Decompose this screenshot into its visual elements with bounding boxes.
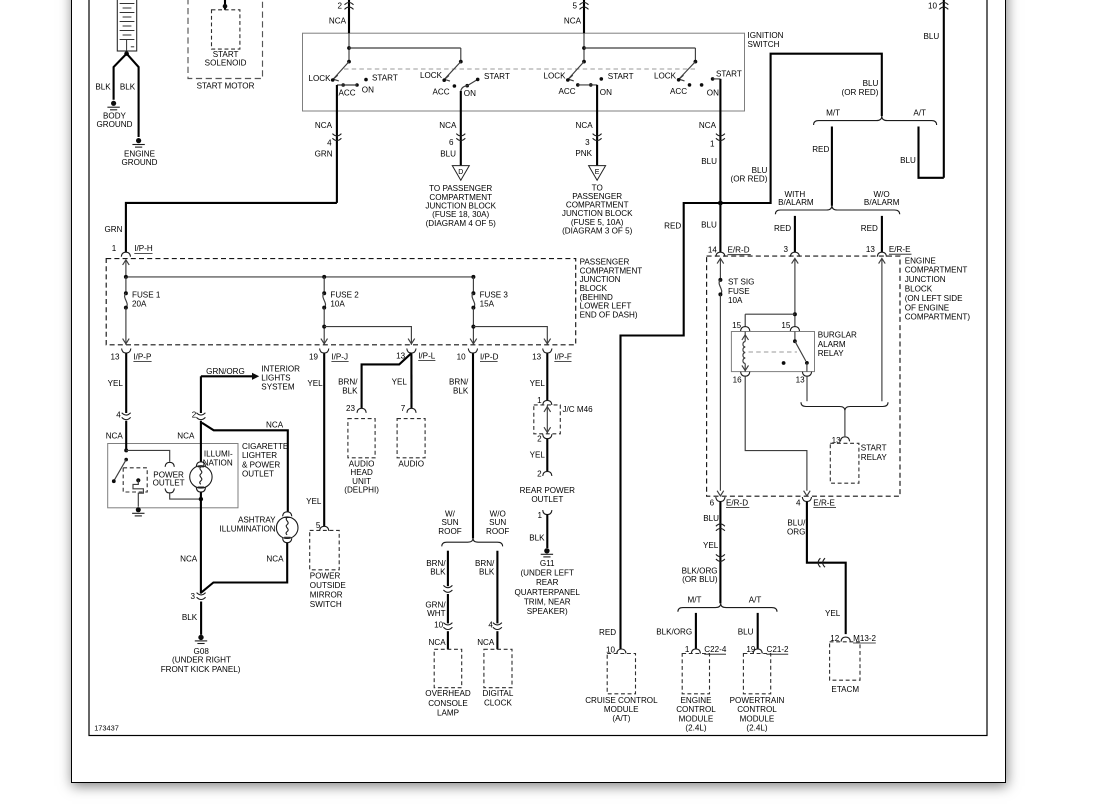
wire below illumination bulb [200, 492, 202, 593]
svg-text:YEL: YEL [108, 379, 124, 388]
svg-text:NCA: NCA [180, 554, 198, 563]
svg-text:ACC: ACC [670, 87, 687, 96]
svg-text:START: START [484, 72, 510, 81]
ignition output 4 wire (BLU) [719, 79, 721, 252]
svg-text:OF ENGINE: OF ENGINE [905, 303, 950, 312]
svg-text:ACC: ACC [432, 87, 449, 96]
svg-text:CONSOLE: CONSOLE [428, 699, 468, 708]
svg-text:BLK: BLK [453, 386, 469, 395]
svg-text:19: 19 [309, 352, 319, 361]
svg-text:G11: G11 [540, 559, 555, 568]
svg-text:CIGARETTE: CIGARETTE [242, 442, 289, 451]
svg-text:YEL: YEL [703, 541, 719, 550]
svg-text:(DIAGRAM 4 OF 5): (DIAGRAM 4 OF 5) [426, 219, 496, 228]
connector 1 [716, 134, 725, 141]
illumination feed / pin 2 [200, 376, 202, 413]
svg-text:JUNCTION: JUNCTION [905, 275, 946, 284]
svg-text:START: START [608, 72, 634, 81]
svg-text:POWER: POWER [310, 572, 341, 581]
svg-text:B/ALARM: B/ALARM [778, 198, 814, 207]
svg-text:ENGINE: ENGINE [905, 256, 937, 265]
svg-text:OUTSIDE: OUTSIDE [310, 581, 347, 590]
switch section 2 (ON-START feed) [349, 48, 510, 98]
brace sunroof [442, 538, 503, 546]
engine compartment junction block [707, 256, 900, 496]
svg-text:SWITCH: SWITCH [748, 40, 780, 49]
svg-text:J/C M46: J/C M46 [563, 405, 594, 414]
wire RED (w/o b/alarm) [881, 216, 883, 252]
svg-text:NCA: NCA [699, 121, 717, 130]
svg-text:13: 13 [532, 352, 542, 361]
svg-text:BLK: BLK [430, 568, 446, 577]
svg-text:RELAY: RELAY [861, 453, 888, 462]
svg-text:JUNCTION BLOCK: JUNCTION BLOCK [425, 201, 496, 210]
svg-text:(FUSE 18, 30A): (FUSE 18, 30A) [432, 210, 489, 219]
engine control module [682, 654, 709, 694]
svg-text:2: 2 [337, 2, 342, 11]
svg-text:C22-4: C22-4 [704, 645, 727, 654]
svg-text:3: 3 [585, 138, 590, 147]
svg-text:G08: G08 [194, 647, 210, 656]
svg-text:5: 5 [572, 2, 577, 11]
connector 10 [443, 623, 452, 630]
svg-text:REAR POWER: REAR POWER [520, 486, 575, 495]
connector 4 [332, 134, 341, 141]
svg-text:(2.4L): (2.4L) [685, 724, 706, 733]
svg-text:COMPARTMENT): COMPARTMENT) [905, 313, 971, 322]
power outlet switch [125, 421, 127, 451]
burglar alarm relay [731, 332, 814, 372]
wire YEL from I/P-L to audio [410, 353, 412, 408]
svg-text:(ON LEFT SIDE: (ON LEFT SIDE [905, 294, 963, 303]
svg-text:20A: 20A [132, 300, 147, 309]
svg-text:(DELPHI): (DELPHI) [344, 485, 379, 494]
svg-text:SWITCH: SWITCH [310, 600, 342, 609]
svg-text:13: 13 [110, 352, 120, 361]
svg-text:OUTLET: OUTLET [153, 479, 185, 488]
svg-text:BRN/: BRN/ [338, 378, 358, 387]
exit pin 4 E/R-E [802, 497, 811, 502]
wire BRN/BLK from I/P-D [472, 353, 474, 538]
svg-text:SUN: SUN [441, 518, 458, 527]
svg-text:ILLUMI-: ILLUMI- [204, 449, 233, 458]
svg-text:INTERIOR: INTERIOR [261, 365, 300, 374]
svg-text:(OR RED): (OR RED) [731, 175, 768, 184]
svg-text:1: 1 [112, 244, 117, 253]
svg-text:YEL: YEL [530, 451, 546, 460]
start motor box [188, 0, 263, 79]
svg-text:YEL: YEL [307, 379, 323, 388]
svg-text:PNK: PNK [575, 149, 592, 158]
svg-text:LOCK: LOCK [654, 71, 677, 80]
junction on solenoid wire [223, 4, 228, 9]
power outlet contact lead [126, 450, 170, 461]
svg-text:I/P-D: I/P-D [480, 352, 499, 361]
brace to start relay [801, 402, 888, 410]
svg-text:I/P-L: I/P-L [418, 351, 436, 360]
triangle reference D [452, 166, 469, 181]
wire BLU/YEL from pin 6 [719, 502, 721, 604]
svg-text:1: 1 [537, 511, 542, 520]
svg-text:RED: RED [599, 628, 616, 637]
svg-text:FUSE: FUSE [728, 287, 750, 296]
wire YEL to rear power outlet [546, 439, 548, 472]
ignition output 1 wire (GRN) [336, 85, 338, 203]
svg-text:3: 3 [190, 592, 195, 601]
svg-text:TRIM, NEAR: TRIM, NEAR [524, 598, 571, 607]
svg-text:LIGHTER: LIGHTER [242, 451, 277, 460]
wire ashtray to pin 3 [202, 543, 288, 592]
wire pin 3 to relay [794, 258, 796, 326]
junction node BLU [718, 201, 723, 206]
ST SIG FUSE 10A [719, 258, 721, 280]
svg-text:NCA: NCA [266, 421, 284, 430]
fuse 3 15A [470, 277, 550, 345]
pin 13 I/P-P [122, 349, 131, 354]
svg-text:1: 1 [537, 396, 542, 405]
pin 10 I/P-D [468, 349, 477, 354]
svg-text:BLU: BLU [900, 156, 916, 165]
svg-text:GRN: GRN [105, 225, 123, 234]
body ground [107, 101, 119, 110]
svg-text:(OR BLU): (OR BLU) [682, 575, 718, 584]
svg-text:BLU: BLU [738, 628, 754, 637]
svg-text:CONTROL: CONTROL [676, 705, 716, 714]
svg-text:ACC: ACC [558, 87, 575, 96]
svg-text:COMPARTMENT: COMPARTMENT [580, 266, 643, 275]
svg-text:4: 4 [488, 620, 493, 629]
svg-text:OVERHEAD: OVERHEAD [425, 689, 471, 698]
passenger compartment junction block [106, 259, 576, 345]
relay pin 13 [802, 372, 811, 377]
wire BLK/ORG to ECM [695, 613, 697, 649]
junction connector J/C M46 [534, 405, 561, 434]
svg-text:NCA: NCA [576, 121, 594, 130]
ground G08 [195, 635, 207, 644]
GRN/ORG wire to interior lights [201, 375, 253, 377]
svg-text:NCA: NCA [177, 431, 195, 440]
pin 2 wire into ignition switch [348, 0, 350, 33]
svg-text:4: 4 [796, 498, 801, 507]
wire BLU to PCM [757, 613, 759, 649]
mechanical linkage (dashed) [344, 68, 698, 70]
svg-text:A/T: A/T [749, 596, 762, 605]
svg-text:GROUND: GROUND [97, 120, 133, 129]
NCA branch to ashtray [202, 423, 288, 512]
connector pin 2 [345, 3, 354, 10]
svg-text:BRN/: BRN/ [426, 559, 446, 568]
svg-text:SPEAKER): SPEAKER) [527, 607, 568, 616]
ignition output 2 wire (BLU) [460, 91, 462, 165]
svg-text:LAMP: LAMP [437, 709, 459, 718]
svg-text:BLK: BLK [479, 568, 495, 577]
svg-text:MIRROR: MIRROR [310, 591, 343, 600]
svg-text:ON: ON [362, 85, 374, 94]
svg-text:10: 10 [457, 352, 467, 361]
svg-text:RED: RED [774, 224, 791, 233]
wire 13 E/R-E rail [881, 258, 883, 401]
relay coil [744, 332, 746, 342]
svg-text:FUSE 1: FUSE 1 [132, 291, 161, 300]
svg-text:& POWER: & POWER [242, 460, 280, 469]
svg-text:CLOCK: CLOCK [484, 699, 512, 708]
wire w/o sunroof BRN/BLK [496, 551, 498, 624]
svg-text:I/P-H: I/P-H [134, 244, 153, 253]
svg-text:RED: RED [812, 145, 829, 154]
fuse 2 10A [321, 277, 415, 345]
svg-text:ROOF: ROOF [438, 527, 461, 536]
svg-text:FUSE 2: FUSE 2 [330, 291, 359, 300]
pin 2 [543, 434, 552, 439]
svg-text:ENGINE: ENGINE [680, 696, 712, 705]
svg-text:AUDIO: AUDIO [398, 460, 424, 469]
svg-text:NCA: NCA [106, 431, 124, 440]
pin 1 [543, 510, 552, 514]
svg-text:BLK: BLK [120, 83, 136, 92]
svg-text:BLU: BLU [752, 166, 768, 175]
svg-text:(UNDER LEFT: (UNDER LEFT [520, 569, 574, 578]
ignition output 3 wire (PNK) [596, 85, 598, 165]
svg-text:START MOTOR: START MOTOR [197, 81, 255, 90]
svg-text:10: 10 [928, 2, 938, 11]
svg-text:ASHTRAY: ASHTRAY [238, 516, 276, 525]
svg-text:YEL: YEL [306, 497, 322, 506]
wire w/ sunroof BRN/BLK [447, 551, 449, 587]
start solenoid box [212, 10, 240, 49]
svg-text:END OF DASH): END OF DASH) [580, 310, 638, 319]
pin 10 BLU rail [943, 0, 945, 178]
svg-text:BLU: BLU [703, 514, 719, 523]
svg-text:(DIAGRAM 3 OF 5): (DIAGRAM 3 OF 5) [562, 227, 632, 236]
svg-text:16: 16 [733, 376, 743, 385]
svg-text:2: 2 [537, 434, 542, 443]
connector 4 [493, 623, 502, 630]
svg-text:BRN/: BRN/ [475, 559, 495, 568]
pin 5 wire into ignition switch [583, 0, 585, 33]
svg-text:FUSE 3: FUSE 3 [480, 291, 509, 300]
svg-text:C21-2: C21-2 [767, 645, 790, 654]
wire BLK to G11 [546, 515, 548, 548]
pin 3 connector [197, 593, 206, 600]
pin 13 I/P-F [543, 349, 552, 354]
svg-text:BRN/: BRN/ [449, 378, 469, 387]
svg-text:BLK: BLK [95, 83, 111, 92]
svg-text:BLK/ORG: BLK/ORG [656, 628, 692, 637]
svg-text:E/R-E: E/R-E [889, 245, 911, 254]
svg-text:YEL: YEL [825, 609, 841, 618]
brace WITH/WO B/ALARM [775, 206, 899, 215]
triangle reference E [589, 166, 606, 181]
svg-text:B/ALARM: B/ALARM [864, 198, 900, 207]
svg-text:SUN: SUN [489, 518, 506, 527]
svg-text:BLU: BLU [701, 220, 717, 229]
svg-text:15A: 15A [480, 300, 495, 309]
wire GRN to I/P-H [126, 203, 337, 252]
cruise control module [607, 654, 635, 694]
svg-text:SYSTEM: SYSTEM [261, 383, 295, 392]
entry arrows [717, 258, 724, 263]
inner diagram frame [89, 0, 987, 736]
battery [117, 0, 136, 56]
svg-text:3: 3 [783, 245, 788, 254]
svg-text:6: 6 [710, 498, 715, 507]
svg-text:RED: RED [664, 221, 681, 230]
svg-text:GROUND: GROUND [122, 158, 158, 167]
ETACM [830, 642, 860, 680]
svg-text:D: D [458, 169, 463, 176]
svg-text:GRN: GRN [315, 150, 333, 159]
svg-text:ORG: ORG [787, 528, 805, 537]
svg-text:NCA: NCA [429, 638, 447, 647]
wire RED (M/T) [831, 127, 833, 206]
svg-text:14: 14 [708, 246, 718, 255]
svg-text:NCA: NCA [329, 17, 347, 26]
svg-text:YEL: YEL [392, 378, 408, 387]
svg-text:NCA: NCA [315, 121, 333, 130]
illumination bulb [200, 421, 202, 462]
svg-text:10A: 10A [728, 296, 743, 305]
power outlet box [108, 444, 238, 508]
svg-text:SOLENOID: SOLENOID [205, 59, 247, 68]
wire GRN/WHT [447, 594, 449, 623]
svg-text:13: 13 [796, 376, 806, 385]
svg-text:I/P-J: I/P-J [331, 352, 348, 361]
svg-text:BLK: BLK [529, 533, 545, 542]
svg-text:ACC: ACC [338, 88, 355, 97]
svg-text:(FUSE 5, 10A): (FUSE 5, 10A) [571, 218, 624, 227]
relay pin 16 [741, 372, 750, 377]
svg-text:173437: 173437 [94, 724, 119, 733]
brace M/T A/T lower [678, 603, 777, 611]
svg-text:A/T: A/T [913, 108, 926, 117]
svg-text:BLU/: BLU/ [787, 519, 806, 528]
audio head unit [348, 419, 375, 458]
svg-text:I/P-P: I/P-P [133, 352, 151, 361]
svg-text:FRONT KICK PANEL): FRONT KICK PANEL) [161, 665, 241, 674]
svg-text:23: 23 [346, 404, 356, 413]
wire RED (with b/alarm) [794, 216, 796, 252]
svg-text:REAR: REAR [536, 578, 559, 587]
svg-text:2: 2 [192, 411, 197, 420]
svg-text:ETACM: ETACM [831, 685, 859, 694]
svg-text:OUTLET: OUTLET [531, 495, 563, 504]
svg-text:QUARTERPANEL: QUARTERPANEL [515, 588, 581, 597]
svg-text:ON: ON [600, 88, 612, 97]
svg-text:GRN/ORG: GRN/ORG [206, 367, 245, 376]
power outside mirror switch [310, 530, 340, 569]
svg-text:ON: ON [464, 89, 476, 98]
svg-text:(UNDER RIGHT: (UNDER RIGHT [172, 656, 231, 665]
svg-text:ILLUMINATION: ILLUMINATION [220, 525, 276, 534]
wire BLU (A/T) [919, 127, 944, 178]
svg-text:(2.4L): (2.4L) [746, 724, 767, 733]
wire RED to cruise control [621, 203, 721, 649]
svg-text:LIGHTS: LIGHTS [261, 374, 291, 383]
svg-text:I/P-F: I/P-F [554, 352, 572, 361]
svg-text:10: 10 [434, 620, 444, 629]
svg-text:YEL: YEL [530, 379, 546, 388]
svg-text:COMPARTMENT: COMPARTMENT [905, 266, 968, 275]
exit pin 6 E/R-D [716, 497, 725, 502]
pin 19 I/P-J [320, 349, 329, 354]
svg-text:IGNITION: IGNITION [748, 31, 784, 40]
svg-text:6: 6 [449, 138, 454, 147]
svg-text:ON: ON [707, 88, 719, 97]
start relay [830, 443, 859, 483]
wire BLU/ORG YEL from pin 4 to ETACM [807, 502, 846, 634]
svg-text:BLOCK: BLOCK [905, 285, 933, 294]
svg-text:JUNCTION BLOCK: JUNCTION BLOCK [562, 209, 633, 218]
svg-text:NCA: NCA [564, 17, 582, 26]
pin 13 I/P-L [407, 349, 416, 354]
svg-text:BLOCK: BLOCK [580, 284, 608, 293]
relay switch [794, 332, 796, 342]
wire BRN/BLK from I/P-L to audio head unit [362, 353, 412, 408]
svg-text:BLU: BLU [923, 32, 939, 41]
bus wire [126, 276, 474, 278]
svg-text:LOWER LEFT: LOWER LEFT [580, 302, 632, 311]
svg-text:ALARM: ALARM [818, 340, 846, 349]
svg-text:LOCK: LOCK [543, 71, 566, 80]
overhead console lamp [434, 649, 462, 687]
svg-text:DIGITAL: DIGITAL [482, 689, 513, 698]
wire to exit 6 [719, 294, 721, 490]
svg-text:BLU: BLU [440, 149, 456, 158]
svg-text:BURGLAR: BURGLAR [818, 331, 857, 340]
svg-text:START: START [716, 70, 742, 79]
wire relay 13 to brace [806, 377, 808, 402]
svg-text:2: 2 [537, 469, 542, 478]
svg-text:BLU: BLU [863, 79, 879, 88]
svg-text:W/: W/ [445, 509, 456, 518]
svg-text:(BEHIND: (BEHIND [580, 293, 613, 302]
wire BLK to G08 [200, 602, 202, 635]
svg-text:LOCK: LOCK [308, 74, 331, 83]
svg-text:1: 1 [710, 139, 715, 148]
protector (dashed) [123, 468, 147, 492]
switch section 4 (START feed) [584, 48, 742, 97]
svg-text:BLU: BLU [701, 157, 717, 166]
relay linkage [749, 351, 798, 353]
svg-text:CONTROL: CONTROL [737, 705, 777, 714]
engine ground [132, 138, 144, 147]
svg-text:START: START [861, 444, 887, 453]
svg-text:1: 1 [685, 645, 690, 654]
svg-text:4: 4 [327, 138, 332, 147]
svg-text:RELAY: RELAY [818, 349, 845, 358]
connector [443, 585, 452, 592]
svg-text:MODULE: MODULE [604, 705, 639, 714]
entry arrow I/P-H [123, 260, 130, 265]
svg-text:POWERTRAIN: POWERTRAIN [730, 696, 785, 705]
wire battery to engine ground (BLK) [127, 54, 139, 137]
switch section 1 (ACC feed) [308, 33, 397, 97]
svg-text:NCA: NCA [266, 554, 284, 563]
svg-text:ROOF: ROOF [486, 527, 509, 536]
wire to start solenoid [224, 0, 226, 10]
connector 6 [456, 134, 465, 141]
svg-text:TO PASSENGER: TO PASSENGER [429, 184, 492, 193]
svg-text:MODULE: MODULE [679, 714, 714, 723]
wire YEL from I/P-F [546, 353, 548, 400]
svg-text:MODULE: MODULE [740, 714, 775, 723]
svg-text:BLK: BLK [342, 386, 358, 395]
wire YEL from I/P-P [125, 353, 127, 413]
svg-text:W/O: W/O [490, 509, 506, 518]
svg-text:JUNCTION: JUNCTION [580, 275, 621, 284]
svg-text:OUTLET: OUTLET [242, 470, 274, 479]
powertrain control module [743, 654, 770, 694]
